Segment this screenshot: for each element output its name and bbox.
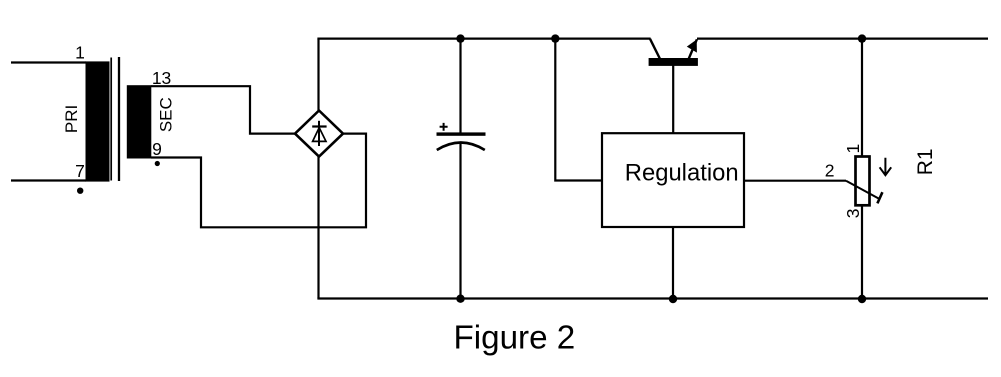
junction dot bottom cap: [456, 295, 464, 303]
cap curved plate: [437, 143, 485, 151]
cap plus sign: [440, 123, 448, 131]
pot wiper diagonal: [846, 181, 880, 200]
svg-text:Regulation: Regulation: [625, 160, 739, 187]
svg-text:7: 7: [75, 161, 85, 181]
collector diagonal: [650, 39, 660, 60]
transformer core lines: [111, 57, 119, 181]
svg-text:2: 2: [825, 161, 835, 181]
primary winding bar: [86, 61, 110, 181]
cap plus plate: [437, 132, 486, 135]
regulation block U1: [602, 133, 744, 227]
junction dot top cap: [456, 34, 464, 42]
potentiometer R1: [825, 39, 937, 299]
wire top rail to regulation input: [555, 39, 602, 181]
transistor Q1: [649, 39, 698, 134]
wire base to regulation: [672, 65, 674, 133]
pot wiper tick: [877, 192, 882, 203]
bridge rectifier D1 diamond: [295, 111, 343, 157]
emitter diagonal: [688, 39, 697, 59]
bridge diode symbol: [312, 121, 326, 146]
wire top rail to cap: [459, 39, 461, 133]
top +V rail right segment: [697, 37, 988, 39]
svg-text:R1: R1: [914, 148, 937, 175]
svg-text:1: 1: [843, 144, 863, 154]
primary phase dot: [77, 188, 83, 194]
wire bridge top to +rail: [317, 39, 319, 112]
wire top rail to pot: [861, 39, 863, 157]
top +V rail left segment: [317, 37, 650, 39]
capacitor C1: [437, 39, 486, 299]
wire pin 1 lead: [11, 61, 86, 63]
emitter arrow: [687, 40, 697, 53]
svg-text:PRI: PRI: [62, 105, 81, 133]
wire regulation bottom to rail: [672, 226, 674, 299]
svg-text:SEC: SEC: [157, 97, 176, 132]
junction dot top pot: [858, 34, 866, 42]
pot body: [856, 157, 870, 206]
svg-text:9: 9: [152, 139, 162, 159]
wire pin9 to bridge right: [151, 134, 366, 228]
wire pin 7 lead: [11, 179, 86, 181]
svg-text:Figure 2: Figure 2: [454, 320, 576, 357]
wire regulation output to pot wiper: [744, 180, 846, 182]
transformer T1 primary winding: [11, 43, 110, 194]
wire cap to bottom rail: [459, 142, 461, 299]
secondary phase dot: [155, 161, 160, 166]
adjustment arrow: [880, 158, 892, 176]
junction dot top reg: [551, 34, 559, 42]
secondary winding bar: [127, 85, 152, 158]
base bar: [649, 58, 698, 66]
transformer T1 secondary winding: [127, 68, 176, 166]
svg-text:3: 3: [843, 209, 863, 219]
bottom rail: [317, 297, 988, 299]
wire pin13 to bridge left: [151, 86, 295, 133]
svg-text:1: 1: [75, 43, 85, 63]
junction dot bottom pot: [858, 295, 866, 303]
wire bridge bottom to -rail: [317, 156, 319, 299]
wire pot to bottom rail: [861, 205, 863, 298]
junction dot bottom reg: [669, 295, 677, 303]
